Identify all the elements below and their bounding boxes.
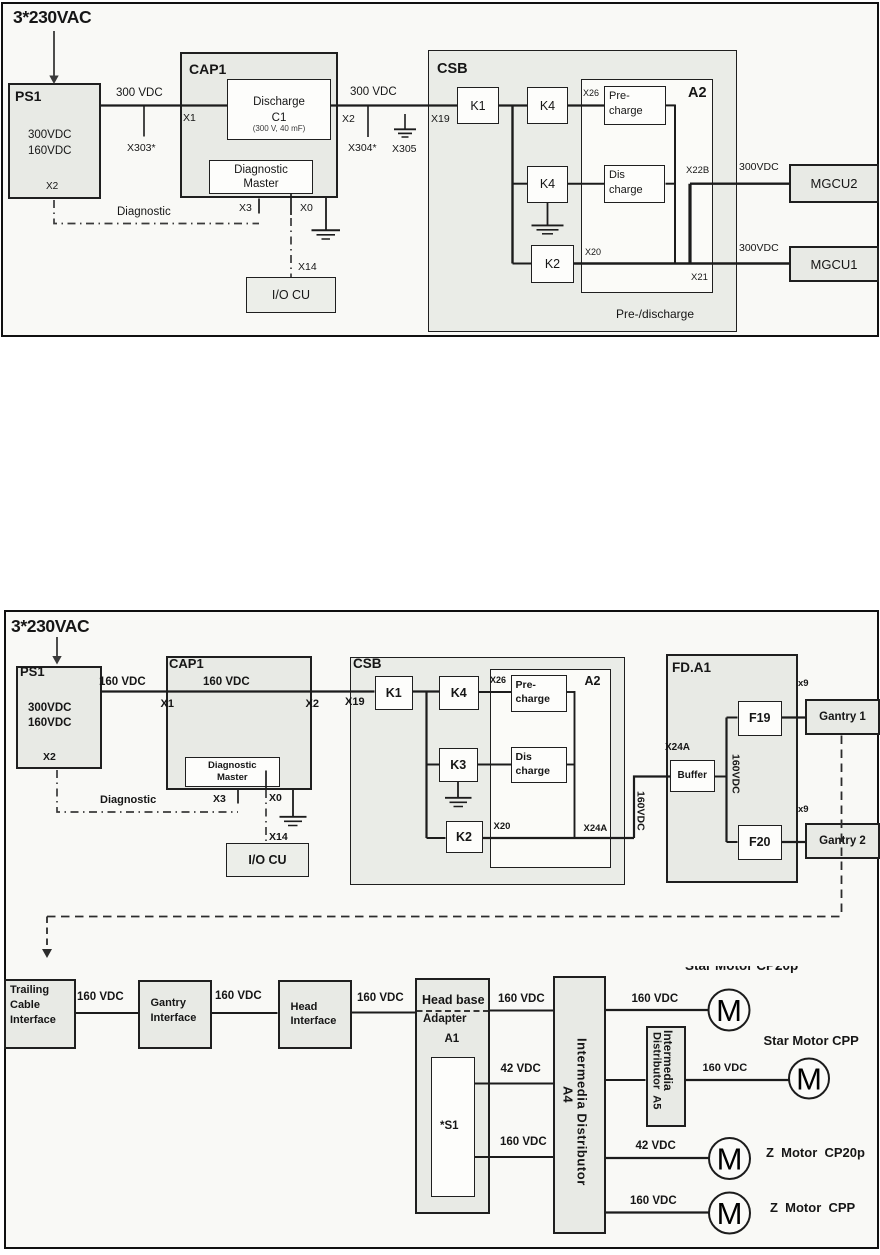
frame of diagram 1 [1,2,879,337]
wire S1 to A4 (160 VDC) [475,1156,553,1158]
wire K4 lower to Discharge [568,183,604,185]
wire A1 to A4 (160 VDC) [490,1010,553,1012]
wire to MGCU2 (X22B) [690,182,789,184]
block Diagnostic Master (2) [185,757,280,787]
label Pre-/discharge [580,308,730,321]
pin X0 (2) [269,793,282,804]
block MGCU2 [789,164,879,203]
relay K4 lower [527,166,568,203]
block A2 (2) [490,669,611,869]
label 160 VDC (A4-motor1) [632,993,679,1005]
label 160 VDC (A1-A4) [498,993,545,1005]
relay K1 (2) [375,676,414,710]
label 160 VDC (GI-HI) [215,990,262,1002]
label 42 VDC (A4-motor3) [636,1140,676,1152]
pin stub X0 (2) [265,771,267,791]
label Discharge C1 [227,96,331,108]
node X303* [127,143,156,154]
wire K2 to MGCU1 (X20/X21) [574,262,789,264]
label 300VDC/160VDC inside PS1 [28,127,71,159]
label 300VDC/160VDC inside PS1 (2) [28,701,71,731]
junction trunk (CSB) [511,105,513,264]
label PS1 (2) [20,665,45,679]
pin X22B [686,166,709,176]
junction trunk CSB (2) [425,691,427,839]
label Diagnostic [117,206,171,218]
relay K2 (2) [446,821,483,853]
label A2 (2) [585,675,601,688]
label 160VDC vertical (FD.A1) [730,754,741,794]
label Diagnostic Master (2) [185,760,280,785]
wire K4 upper to Pre-charge (X26) [568,104,604,106]
block Head Interface [278,980,353,1049]
block Trailing Cable Interface [4,979,76,1049]
label 160 VDC (S1-A4) [500,1136,547,1148]
label Star Motor CPP [764,1034,859,1048]
block Pre-charge [604,86,666,125]
pin X14 (2) [269,832,288,843]
relay K2 [531,245,574,283]
wire S1 to A4 (42 VDC) [475,1083,553,1085]
ground at CAP1 (2) [280,790,307,826]
motor M Z CP20p [709,1138,750,1179]
ground at CAP1 X0 [312,198,341,239]
wire Buffer to F19/F20 trunk [715,776,727,778]
label (300 V, 40 mF) [227,125,331,133]
relay K4 (2) [439,676,479,711]
block Head base Adapter A1 [415,978,490,1214]
label Star Motor CP20p (clipped) [685,966,825,977]
wire K4 to Pre-charge (2) [479,691,512,693]
node stub X303* [143,106,145,137]
block Discharge (A2) [604,165,665,203]
fuse F20 [738,825,783,860]
dashed link horizontal to trailing cable [47,916,842,918]
wire K3 to Discharge (2) [478,764,512,766]
label Intermedia (A5) [662,1030,675,1091]
wire trunk to K3 [427,764,440,766]
pin X20 (2) [494,822,511,832]
block I/O CU [246,277,336,313]
wire K1 to K4 upper [499,104,527,106]
label 160 VDC (HI-A1) [357,992,404,1004]
wire riser 160VDC to Buffer [634,777,670,839]
wire PS1 to K1 (160 VDC) [102,690,375,692]
connector Pre-charge/Discharge outputs [666,105,676,264]
ground X305 [394,114,416,137]
svg-text:M: M [796,1062,822,1097]
pin X19 [431,114,450,125]
block I/O CU (2) [226,843,309,877]
pin X2 of PS1 [46,182,58,193]
label CSB [437,62,468,77]
block CAP1 [180,52,338,198]
svg-text:M: M [716,993,742,1028]
block Intermedia Distributor A5 [646,1026,686,1127]
block Diagnostic Master [209,160,313,194]
block Pre-charge (2) [511,675,567,712]
label Pre-charge (2) [516,678,550,707]
label Dis charge [609,168,643,198]
node X305 [392,144,417,155]
label 42 VDC (S1-A4) [501,1063,541,1075]
label 160 VDC (TCI-GI) [77,991,124,1003]
label 160 VDC (inside CAP1) [203,676,250,688]
block FD.A1 [666,654,798,884]
motor M Z CPP [709,1193,750,1234]
dashed segment inside A1 [417,1010,489,1012]
label 300 VDC (CAP1-CSB) [350,86,397,98]
wire A4 to motor 4 (160 VDC) [606,1211,710,1213]
block CSB [428,50,737,332]
wire A5 to motor 2 [686,1079,790,1081]
label 300VDC (to MGCU1) [739,243,779,254]
wire Head Interface to A1 [352,1012,415,1014]
label 3*230VAC (2) [11,617,89,635]
label Distributor A5 [650,1032,662,1110]
wire F20 to Gantry 2 (x9) [782,841,805,843]
label 300VDC (to MGCU2) [739,162,779,173]
wire PS1 to Discharge C1 (300 VDC) [101,104,227,106]
label Head base [422,994,485,1007]
diagnostic dash-dot link PS1 X2 to X3 [54,200,259,224]
relay K3 [439,748,478,783]
wire A4 to A5 [606,1079,646,1081]
pin stub X3 [258,199,260,214]
wire trunk to F20 [727,841,738,843]
pin x9 (Gantry 1) [798,679,809,689]
relay K1 [457,87,499,124]
label 160 VDC (PS1-CAP1) [99,676,146,688]
frame of diagram 2 [4,610,879,1249]
block Gantry Interface [138,980,212,1049]
wire A4 to motor 1 [606,1009,709,1011]
pin X1 (2) [161,699,174,711]
pin x9 (Gantry 2) [798,805,809,815]
block *S1 [431,1057,475,1198]
pin X0 [300,203,313,214]
dashed arrow down to Trailing Cable Interface [42,917,52,959]
wire trunk to K2 [513,263,532,265]
label CAP1 [189,62,226,77]
pin stub X0 [290,194,292,215]
label Gantry Interface [151,996,197,1027]
wire X22B riser [688,184,691,264]
label CSB (2) [353,657,382,671]
node stub X304* [367,106,369,138]
block CSB (2) [350,657,625,885]
arrow 3*230VAC into PS1 (2) [52,637,61,665]
block Gantry 2 [805,823,880,859]
wire A4 to motor 3 (42 VDC) [606,1157,710,1159]
block A2 [581,79,713,293]
label Pre-charge [609,89,643,119]
wire Gantry Interface to Head Interface [212,1012,278,1014]
dash-dot X0 to I/O CU (2) [265,790,267,843]
label Z Motor CP20p [766,1146,865,1160]
block Buffer [670,760,715,793]
pin X19 (2) [345,697,365,709]
wire K1 to K4 (2) [413,690,439,692]
label FD.A1 [672,661,711,675]
pin X1 [183,113,196,124]
label Z Motor CPP [770,1201,855,1215]
ground under K4 lower [532,203,564,234]
pin X3 [239,203,252,214]
label A4 [561,1086,575,1103]
label A1 [445,1033,460,1045]
pin X20 [585,248,601,257]
arrow 3*230VAC into PS1 [49,31,58,84]
relay K4 upper [527,87,568,124]
label Adapter [423,1013,466,1025]
label Intermedia Distributor (A4) [575,1038,589,1186]
block PS1 [8,83,101,199]
node X304* [348,143,377,154]
pin X14 [298,262,317,273]
wire trunk to K4 lower [513,183,528,185]
diagnostic dash-dot link PS1 X2 to X3 (2) [57,770,238,812]
label Head Interface [291,1000,337,1030]
pin X3 (2) [213,794,226,805]
label A2 [688,86,707,101]
label C1 [227,112,331,124]
pin X2 of PS1 (2) [43,752,56,763]
label PS1 [15,89,41,104]
svg-text:M: M [717,1196,743,1231]
block Discharge (2) [511,747,567,783]
dashed link Gantry riser [841,736,843,917]
label CAP1 (2) [169,657,204,671]
block Discharge C1 [227,79,331,140]
pin X2 (CAP1) [342,114,355,125]
block Gantry 1 [805,699,880,735]
block CAP1 (2) [166,656,312,790]
label 300 VDC (PS1-CAP1) [116,87,163,99]
pin stub X3 (2) [237,790,239,804]
dash-dot X0 to I/O CU (X14) [290,218,292,277]
label *S1 [440,1120,459,1132]
wire TCI to Gantry Interface [76,1012,139,1014]
ground under K3 [445,782,472,807]
svg-text:M: M [717,1142,743,1177]
pin X24A (A2) [584,824,608,834]
pin X21 [691,273,708,283]
label Dis charge (2) [516,750,550,779]
wire Discharge C1 to K1 (300 VDC) [331,104,457,106]
label 160VDC vertical (CSB out) [635,791,646,831]
label Diagnostic (2) [100,795,156,807]
wire trunk to K2 (2) [427,837,446,839]
connector Pre-charge/Discharge outputs (2) [567,691,575,838]
pin X26 [583,89,599,98]
block Intermedia Distributor A4 [553,976,606,1234]
block MGCU1 [789,246,879,282]
label Diagnostic Master [209,163,313,192]
wire trunk to F19 [727,717,738,719]
motor M star CPP [789,1059,829,1099]
pin X26 (2) [490,676,506,685]
label 160 VDC (A4-motor4) [630,1195,677,1207]
pin X2 (CAP1 2) [306,699,319,711]
wire F19 to Gantry 1 (x9) [782,716,805,718]
label 160 VDC (A5-motor2) [703,1063,748,1075]
trunk FD.A1 [725,718,727,843]
label 3*230VAC [13,8,91,26]
label Trailing Cable Interface [10,983,56,1029]
wire K2 to X24A corner [483,837,635,839]
block PS1 (2) [16,666,102,769]
motor M star CP20p [709,990,750,1031]
pin X24A (FD.A1) [665,743,690,754]
fuse F19 [738,701,783,736]
